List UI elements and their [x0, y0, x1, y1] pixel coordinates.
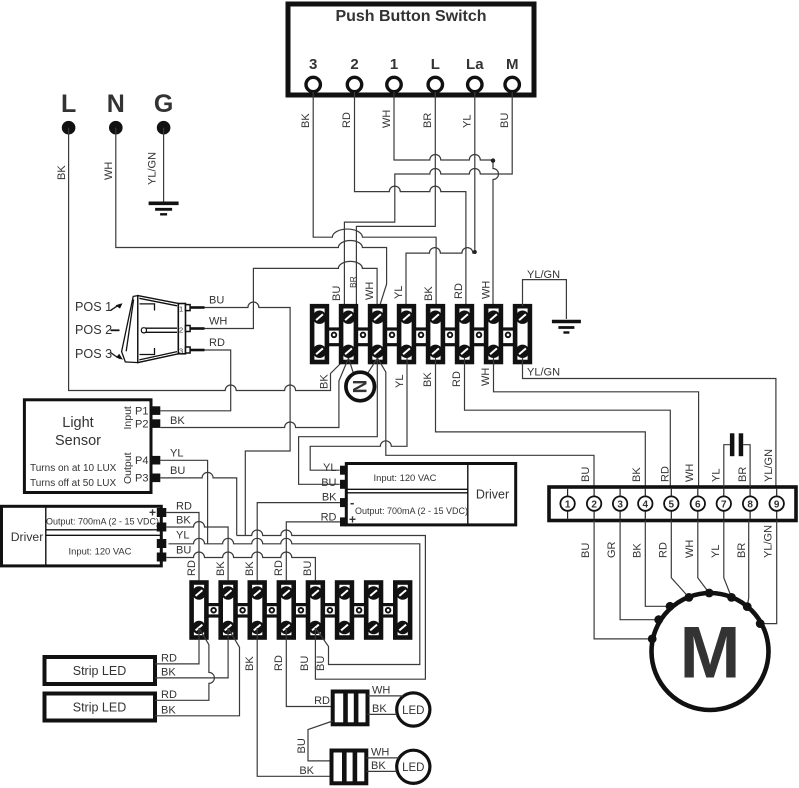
TB2 center hole 5 [328, 608, 333, 613]
wire RD from TB2 pos4 bottom to LED1 connector [273, 628, 333, 707]
svg-text:BR: BR [422, 113, 434, 128]
svg-text:BK: BK [56, 165, 68, 180]
driver1 pin BU [157, 545, 192, 562]
driver1 pin RD [157, 501, 192, 518]
wire YL from TB1 pos4 bottom to driver2 YL pin [310, 358, 407, 470]
TB1 screw top pos6 [458, 311, 471, 324]
svg-text:Sensor: Sensor [55, 433, 101, 449]
svg-text:WH: WH [209, 316, 227, 328]
node L power input [61, 90, 76, 135]
wire BU from PBS-M to TB1 pos2 top [331, 92, 512, 306]
TB1 screw bottom pos1 [313, 345, 326, 358]
svg-text:1: 1 [565, 500, 571, 511]
svg-text:BR: BR [737, 467, 749, 482]
TB1 screw bottom pos3 [371, 345, 384, 358]
svg-text:9: 9 [774, 500, 780, 511]
svg-text:WH: WH [481, 281, 493, 299]
wire RD from TB1 pos6 bottom to TS pos5 [451, 358, 672, 487]
svg-text:BU: BU [299, 656, 311, 671]
TB1 screw bottom pos4 [400, 345, 413, 358]
svg-text:Input: 120 VAC: Input: 120 VAC [374, 472, 437, 483]
driver2 pin YL [323, 462, 346, 475]
svg-text:BU: BU [321, 477, 336, 489]
TS terminal 5 [664, 489, 678, 519]
svg-text:BK: BK [631, 467, 643, 482]
svg-text:P3: P3 [135, 473, 148, 485]
svg-text:N: N [107, 90, 125, 118]
svg-text:RD: RD [209, 337, 225, 349]
wire BK from light sensor P2 to TB1 pos2 bottom [160, 358, 348, 428]
svg-text:-: - [152, 521, 156, 536]
svg-text:Output: 700mA (2 - 15 VDC): Output: 700mA (2 - 15 VDC) [355, 506, 468, 516]
TB1 center hole 7 [506, 333, 511, 338]
TS terminal 8 [743, 489, 757, 519]
TB2 screw top pos1 [192, 586, 205, 599]
wire BK strip LED2 to TB2 pos2 bottom diagonal [155, 628, 240, 717]
svg-text:P2: P2 [135, 419, 148, 431]
TB1 screw bottom pos7 [487, 345, 500, 358]
push button switch box U1 [288, 4, 534, 95]
wire RD from PBS-2 to TB1 pos6 top [341, 92, 466, 306]
svg-text:RD: RD [161, 653, 177, 665]
TB1 screw bottom pos6 [458, 345, 471, 358]
wire WH from PBS-1 to TB1 pos7 top with junction dot [381, 92, 499, 306]
svg-text:LED: LED [402, 705, 424, 717]
svg-text:RD: RD [451, 371, 463, 387]
svg-text:2: 2 [179, 326, 183, 335]
svg-text:1: 1 [390, 56, 398, 73]
svg-text:2: 2 [350, 56, 358, 73]
svg-text:BK: BK [161, 667, 176, 679]
wire YL from PBS-La to TB1 pos4 top with junction dot [393, 92, 477, 306]
svg-text:POS 2: POS 2 [75, 323, 112, 337]
svg-text:3: 3 [179, 347, 183, 356]
wire BK from TS to motor [631, 521, 674, 611]
TB2 center hole 3 [270, 608, 275, 613]
svg-text:L: L [61, 90, 76, 118]
rocker switch pin 1 [179, 304, 205, 313]
svg-text:BU: BU [580, 467, 592, 482]
terminal strip TS right [549, 487, 796, 521]
svg-text:YL: YL [170, 448, 183, 460]
svg-text:GR: GR [606, 541, 618, 558]
svg-text:BK: BK [244, 561, 256, 576]
wire YL/GN from G to ground [147, 128, 164, 202]
svg-text:M: M [680, 613, 741, 694]
svg-text:5: 5 [669, 500, 675, 511]
svg-text:BR: BR [348, 276, 358, 288]
svg-text:Turns on at 10 LUX: Turns on at 10 LUX [30, 463, 117, 474]
wire BR from PBS-L to TB1 pos2 top [348, 92, 435, 306]
svg-text:WH: WH [364, 282, 376, 300]
TB1 screw top pos7 [487, 311, 500, 324]
TS terminal 6 [691, 489, 705, 519]
svg-text:BU: BU [499, 113, 511, 128]
svg-text:2: 2 [591, 500, 597, 511]
svg-text:BK: BK [215, 561, 227, 576]
wire RD strip LED1 to TB2 pos1 bottom [155, 628, 199, 665]
svg-text:BR: BR [736, 543, 748, 558]
TB2 screw bottom pos3 [251, 621, 264, 634]
svg-text:RD: RD [657, 542, 669, 558]
earth ground symbol right of TB1 [552, 322, 581, 333]
svg-text:YL: YL [393, 286, 405, 299]
svg-text:YL/GN: YL/GN [527, 367, 560, 379]
wire BK from TB1 pos5 bottom to TS pos4 [422, 358, 645, 487]
wire WH from rocker pin2 to TB1 pos3 top [205, 261, 378, 328]
svg-text:Input: Input [122, 406, 134, 429]
node N power input [107, 90, 125, 135]
TB1 screw top pos3 [371, 311, 384, 324]
svg-text:6: 6 [695, 500, 701, 511]
svg-text:WH: WH [371, 747, 389, 759]
TB2 screw top pos5 [309, 586, 322, 599]
svg-text:YL: YL [711, 469, 723, 482]
terminal 2 of push button switch [347, 56, 361, 92]
TB2 screw bottom pos4 [280, 621, 293, 634]
svg-text:BK: BK [300, 113, 312, 128]
svg-text:Turns off at 50 LUX: Turns off at 50 LUX [30, 478, 116, 489]
svg-text:Strip LED: Strip LED [73, 701, 127, 715]
svg-text:RD: RD [161, 689, 177, 701]
wire RD strip LED2 to TB2 pos1 bottom diagonal [155, 628, 214, 701]
terminal M of push button switch [505, 56, 519, 92]
svg-text:YL/GN: YL/GN [763, 525, 775, 558]
wire YL from TS to motor [710, 521, 736, 602]
wire BK from TB2 pos3 bottom to LED2 connector [244, 628, 332, 777]
svg-text:YL: YL [323, 462, 336, 474]
TB2 screw top pos3 [251, 586, 264, 599]
svg-text:WH: WH [103, 162, 115, 180]
capacitor C1 across TS pos7-8 [711, 433, 751, 487]
wire BK strip LED1 to TB2 pos2 bottom [155, 628, 228, 679]
TB1 center hole 3 [390, 333, 395, 338]
svg-text:P1: P1 [135, 406, 148, 418]
wire BU net from P3 junction east under driver2 to TB2 pos5 bottom [237, 530, 426, 679]
wire RD from TS to motor [657, 521, 693, 602]
svg-text:POS 1: POS 1 [75, 300, 112, 314]
svg-text:Light: Light [62, 415, 93, 431]
svg-text:BU: BU [176, 545, 191, 557]
wire WH LED2 connector to lamp [366, 747, 399, 759]
svg-text:BU: BU [170, 465, 185, 477]
wire WH LED1 connector to lamp [368, 685, 404, 697]
TB2 center hole 4 [299, 608, 304, 613]
light sensor pin P1 [135, 406, 160, 418]
wire YL net from driver1 YL pin east under driver2 to TB2 pos5 bottom diagonal [169, 538, 420, 664]
TS terminal 2 [587, 489, 601, 519]
svg-text:WH: WH [684, 464, 696, 482]
svg-text:RD: RD [273, 655, 285, 671]
terminal L of push button switch [428, 56, 442, 92]
svg-text:YL/GN: YL/GN [147, 152, 159, 185]
svg-text:BK: BK [372, 703, 387, 715]
svg-text:7: 7 [721, 500, 727, 511]
neutral N symbol on TB1 pos2-3 [346, 358, 378, 401]
svg-text:WH: WH [381, 110, 393, 128]
svg-text:4: 4 [643, 500, 649, 511]
svg-text:RD: RD [453, 283, 465, 299]
TB2 screw top pos6 [338, 586, 351, 599]
TB1 center hole 2 [361, 333, 366, 338]
TB2 screw top pos2 [221, 586, 234, 599]
TB2 screw bottom pos8 [396, 621, 409, 634]
LED2 connector block [332, 751, 367, 784]
svg-text:-: - [350, 495, 354, 510]
wire YL/GN from TS to motor [756, 521, 777, 628]
svg-text:BK: BK [319, 374, 331, 389]
svg-text:WH: WH [372, 685, 390, 697]
svg-text:8: 8 [747, 500, 753, 511]
svg-text:Driver: Driver [476, 488, 509, 502]
svg-text:RD: RD [314, 695, 330, 707]
TS terminal 7 [717, 489, 731, 519]
LED1 connector block [333, 692, 368, 725]
strip LED module 1 [45, 657, 156, 684]
TS terminal 1 [560, 489, 574, 519]
driver1 box left [2, 506, 162, 566]
svg-text:Driver: Driver [11, 530, 44, 544]
TB1 screw bottom pos5 [429, 345, 442, 358]
svg-text:3: 3 [309, 56, 317, 73]
svg-text:P4: P4 [135, 455, 148, 467]
TB2 screw bottom pos6 [338, 621, 351, 634]
driver2 pin BK [322, 492, 347, 508]
TB2 screw bottom pos1 [192, 621, 205, 634]
svg-text:N: N [351, 380, 372, 394]
terminal 1 of push button switch [387, 56, 401, 92]
terminal 3 of push button switch [306, 56, 320, 92]
wire RD from rocker pin3 to light sensor P1 [160, 337, 230, 411]
TB2 screw top pos7 [367, 586, 380, 599]
wire BK from driver2 to TB2 pos3 top [244, 503, 340, 581]
wire GR from TS to motor [606, 521, 663, 625]
svg-text:POS 3: POS 3 [75, 347, 112, 361]
wire BU from driver1 to TB2 pos5 top [166, 552, 315, 581]
TB2 screw bottom pos7 [367, 621, 380, 634]
svg-text:WH: WH [480, 368, 492, 386]
svg-text:YL: YL [394, 375, 406, 388]
wire YL from light sensor P4 down to YL net [160, 448, 207, 544]
TB1 screw top pos1 [313, 311, 326, 324]
driver1 pin YL [157, 530, 190, 549]
wire YL/GN from TB1 pos8 top to earth ground [523, 269, 567, 319]
terminal block TB2 lower [192, 583, 410, 638]
svg-text:WH: WH [684, 540, 696, 558]
terminal La of push button switch [466, 56, 484, 92]
TB2 center hole 6 [357, 608, 362, 613]
light sensor pin P2 [135, 419, 160, 431]
svg-text:L: L [431, 56, 440, 73]
svg-text:BU: BU [302, 561, 314, 576]
svg-text:Input: 120 VAC: Input: 120 VAC [69, 546, 132, 557]
TB1 screw top pos5 [429, 311, 442, 324]
svg-text:BK: BK [422, 372, 434, 387]
svg-text:Output: Output [122, 452, 134, 484]
svg-text:BK: BK [161, 705, 176, 717]
TS terminal 4 [638, 489, 652, 519]
TS terminal 9 [770, 489, 784, 519]
motor M [652, 593, 769, 710]
svg-text:3: 3 [617, 500, 623, 511]
svg-text:LED: LED [402, 762, 424, 774]
svg-text:1: 1 [179, 304, 183, 313]
svg-text:RD: RD [341, 112, 353, 128]
svg-text:RD: RD [186, 560, 198, 576]
svg-text:YL: YL [176, 530, 189, 542]
svg-text:YL: YL [462, 115, 474, 128]
TB2 center hole 1 [211, 608, 216, 613]
svg-text:+: + [149, 506, 156, 520]
ground symbol below G [149, 203, 179, 214]
svg-text:La: La [466, 56, 484, 73]
wire BK from L down and across to TB1 pos2 bottom [56, 128, 347, 391]
svg-text:Push Button Switch: Push Button Switch [335, 8, 486, 25]
LED1 lamp circle [397, 693, 430, 726]
rocker switch S1 body [122, 296, 186, 363]
svg-text:BK: BK [423, 286, 435, 301]
TB2 screw bottom pos2 [221, 621, 234, 634]
svg-text:G: G [154, 90, 173, 118]
label POS 2 with pointer [75, 323, 120, 337]
svg-text:YL: YL [710, 545, 722, 558]
label POS 1 with pointer [75, 300, 123, 314]
wire BU from light sensor P3 east to BU net [160, 465, 236, 536]
node G power input [154, 90, 173, 135]
TB2 screw bottom pos5 [309, 621, 322, 634]
TB1 screw top pos8 [516, 311, 529, 324]
svg-text:YL/GN: YL/GN [527, 269, 560, 281]
terminal block TB1 central [312, 306, 530, 362]
LED2 lamp circle [397, 750, 430, 783]
TB2 screw top pos8 [396, 586, 409, 599]
svg-text:BU: BU [209, 295, 224, 307]
wire BK from PBS-3 to TB1 pos5 top [300, 92, 436, 306]
wire BU from LED1 connector to LED2 connector [296, 721, 333, 761]
wire WH from TB1 pos7 bottom to TS pos6 [480, 358, 699, 487]
TB2 screw top pos4 [280, 586, 293, 599]
svg-text:BU: BU [315, 656, 327, 671]
TB2 pos5 bottom BU labels [299, 656, 327, 671]
TB1 screw top pos4 [400, 311, 413, 324]
label POS 3 with pointer [75, 347, 123, 361]
svg-text:RD: RD [660, 466, 672, 482]
TB1 center hole 6 [477, 333, 482, 338]
svg-text:BK: BK [299, 765, 314, 777]
wire BU from rocker pin1 down to BU net junction [205, 295, 291, 536]
light sensor pin P4 [135, 455, 160, 467]
svg-text:BK: BK [631, 543, 643, 558]
wire BK from driver1 to TB2 pos2 top [166, 522, 228, 581]
svg-text:YL/GN: YL/GN [763, 449, 775, 482]
wire BU from TS to motor [580, 521, 657, 644]
TB1 center hole 1 [332, 333, 337, 338]
wire WH from TS to motor [684, 521, 714, 598]
wire WH from N across to TB1 pos3 top [103, 128, 387, 306]
svg-text:BK: BK [244, 656, 256, 671]
svg-text:Strip LED: Strip LED [73, 664, 127, 678]
svg-text:BK: BK [176, 515, 191, 527]
driver2 pin BU [321, 477, 346, 489]
TB1 center hole 4 [419, 333, 424, 338]
light sensor pin P3 [135, 473, 160, 485]
driver1 pin BK [157, 515, 192, 532]
svg-text:M: M [506, 56, 519, 73]
rocker switch pin 2 [179, 326, 205, 335]
TS terminal 3 [613, 489, 627, 519]
wire YL/GN from TB1 pos8 bottom to TS pos9 [523, 358, 776, 487]
wire RD from driver2 to TB2 pos4 top [273, 522, 340, 581]
svg-text:Output: 700mA (2 - 15 VDC): Output: 700mA (2 - 15 VDC) [46, 517, 159, 527]
wire BR from TS to motor [736, 521, 752, 611]
wire BU from TB1 pos3 bottom to TS pos2 [378, 358, 595, 487]
svg-text:BK: BK [322, 492, 337, 504]
svg-text:+: + [349, 513, 356, 527]
svg-text:BU: BU [296, 738, 308, 753]
svg-text:BK: BK [170, 415, 185, 427]
wire BU from TB1 pos3 bottom to driver2 BU pin [299, 358, 378, 484]
light sensor module box [24, 400, 151, 493]
wire BK LED1 connector to lamp [368, 703, 398, 715]
driver2 box center [346, 464, 515, 527]
TB2 center hole 7 [386, 608, 391, 613]
TB1 screw top pos2 [342, 311, 355, 324]
wire RD from driver1 to TB2 pos1 top [166, 513, 199, 581]
svg-text:RD: RD [176, 501, 192, 513]
svg-text:BU: BU [331, 286, 343, 301]
driver2 pin RD [321, 512, 347, 527]
TB1 screw bottom pos8 [516, 345, 529, 358]
svg-text:BU: BU [580, 543, 592, 558]
strip LED module 2 [45, 694, 156, 721]
wire BK LED2 connector to lamp [366, 760, 397, 772]
TB2 center hole 2 [240, 608, 245, 613]
TB1 center hole 5 [448, 333, 453, 338]
rocker switch pin 3 [179, 347, 205, 356]
svg-text:RD: RD [273, 560, 285, 576]
TB1 screw bottom pos2 [342, 345, 355, 358]
svg-text:BK: BK [371, 760, 386, 772]
